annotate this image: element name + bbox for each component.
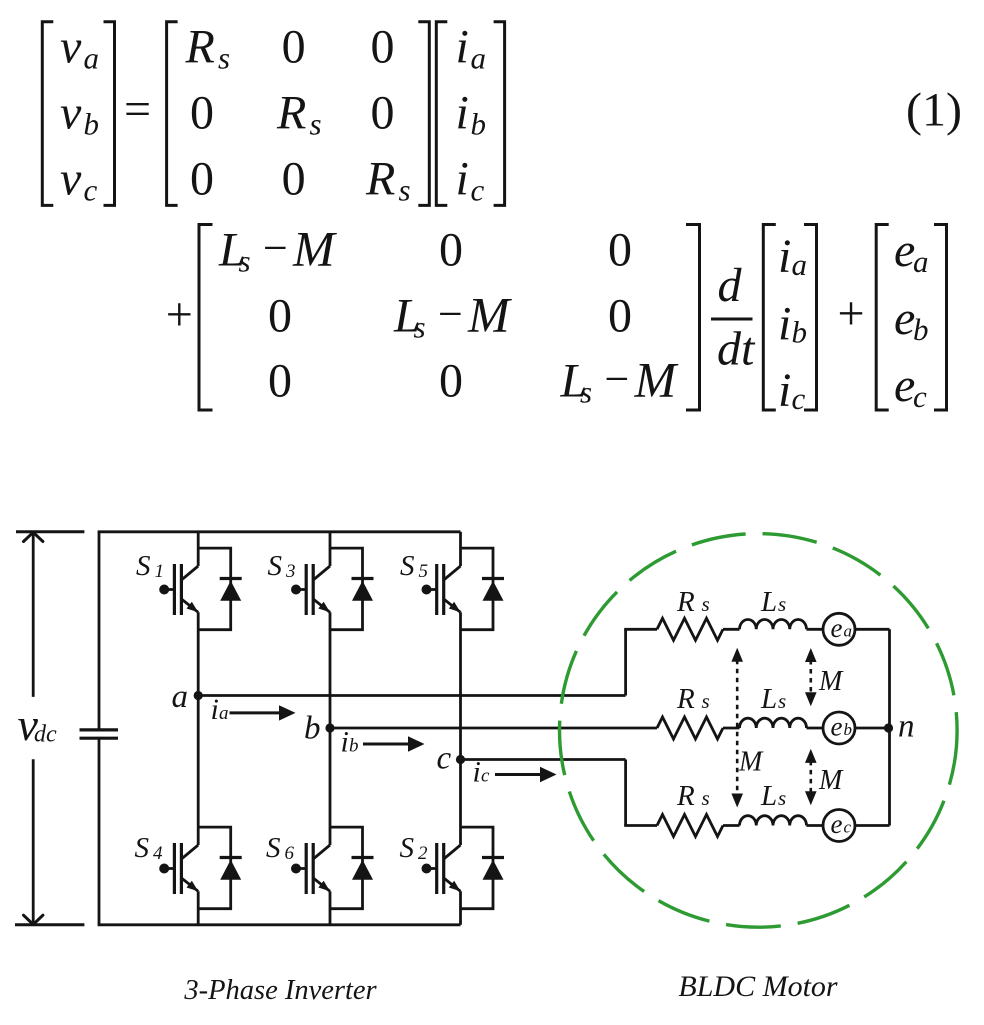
svg-text:e: e bbox=[831, 809, 843, 839]
svg-text:i: i bbox=[341, 726, 349, 759]
svg-text:i: i bbox=[456, 21, 469, 74]
svg-text:a: a bbox=[844, 621, 853, 640]
svg-text:S: S bbox=[400, 832, 415, 864]
svg-text:M: M bbox=[738, 747, 764, 778]
svg-text:b: b bbox=[349, 736, 359, 757]
svg-text:R: R bbox=[185, 21, 215, 74]
svg-text:M: M bbox=[818, 666, 844, 697]
svg-text:−: − bbox=[438, 290, 463, 339]
svg-text:c: c bbox=[481, 766, 490, 787]
svg-text:s: s bbox=[778, 786, 786, 810]
svg-text:a: a bbox=[471, 41, 487, 76]
svg-text:BLDC Motor: BLDC Motor bbox=[678, 970, 838, 1003]
svg-text:s: s bbox=[702, 592, 710, 616]
svg-text:i: i bbox=[456, 153, 469, 206]
svg-text:R: R bbox=[276, 87, 306, 140]
svg-text:a: a bbox=[219, 703, 229, 724]
svg-text:i: i bbox=[211, 693, 219, 726]
svg-text:R: R bbox=[676, 586, 695, 618]
svg-text:s: s bbox=[310, 107, 322, 142]
svg-text:0: 0 bbox=[268, 355, 292, 408]
svg-text:(1): (1) bbox=[906, 84, 962, 137]
svg-text:1: 1 bbox=[155, 561, 165, 582]
svg-text:i: i bbox=[778, 230, 791, 283]
svg-text:0: 0 bbox=[190, 87, 214, 140]
svg-text:R: R bbox=[676, 780, 695, 812]
svg-text:v: v bbox=[60, 87, 82, 140]
svg-text:M: M bbox=[634, 352, 679, 408]
svg-text:S: S bbox=[266, 832, 281, 864]
svg-text:s: s bbox=[414, 310, 426, 345]
svg-text:b: b bbox=[913, 312, 929, 347]
svg-text:S: S bbox=[136, 550, 151, 582]
svg-text:0: 0 bbox=[439, 355, 463, 408]
svg-text:s: s bbox=[580, 375, 592, 410]
svg-text:−: − bbox=[263, 224, 288, 273]
svg-text:a: a bbox=[84, 41, 100, 76]
svg-text:0: 0 bbox=[268, 290, 292, 343]
svg-text:c: c bbox=[471, 173, 485, 208]
svg-text:+: + bbox=[166, 288, 193, 341]
svg-text:3: 3 bbox=[285, 561, 296, 582]
svg-text:s: s bbox=[218, 41, 230, 76]
svg-text:6: 6 bbox=[285, 843, 295, 864]
svg-text:a: a bbox=[913, 244, 929, 279]
svg-text:M: M bbox=[818, 765, 844, 796]
svg-text:b: b bbox=[304, 711, 321, 747]
svg-text:s: s bbox=[239, 244, 251, 279]
svg-text:b: b bbox=[844, 720, 853, 739]
svg-text:i: i bbox=[778, 364, 791, 417]
svg-text:L: L bbox=[760, 683, 777, 715]
svg-text:c: c bbox=[437, 741, 452, 777]
svg-text:i: i bbox=[473, 756, 481, 789]
svg-text:e: e bbox=[831, 712, 843, 742]
svg-text:c: c bbox=[913, 379, 927, 414]
svg-text:L: L bbox=[760, 780, 777, 812]
svg-text:S: S bbox=[135, 832, 150, 864]
svg-text:3-Phase Inverter: 3-Phase Inverter bbox=[183, 975, 377, 1006]
svg-text:s: s bbox=[778, 689, 786, 713]
svg-text:n: n bbox=[898, 709, 915, 745]
svg-text:S: S bbox=[400, 550, 415, 582]
svg-text:0: 0 bbox=[608, 290, 632, 343]
svg-text:−: − bbox=[605, 355, 630, 404]
svg-text:b: b bbox=[84, 107, 100, 142]
svg-text:5: 5 bbox=[419, 561, 429, 582]
svg-text:S: S bbox=[268, 550, 283, 582]
svg-text:c: c bbox=[792, 381, 806, 416]
svg-text:L: L bbox=[760, 586, 777, 618]
svg-text:i: i bbox=[778, 298, 791, 351]
svg-text:b: b bbox=[471, 107, 487, 142]
svg-text:0: 0 bbox=[608, 224, 632, 277]
svg-text:0: 0 bbox=[439, 224, 463, 277]
svg-text:s: s bbox=[778, 592, 786, 616]
svg-text:b: b bbox=[792, 315, 808, 350]
svg-text:dt: dt bbox=[717, 323, 756, 376]
svg-text:+: + bbox=[837, 287, 864, 340]
svg-text:0: 0 bbox=[282, 153, 306, 206]
svg-text:s: s bbox=[399, 173, 411, 208]
svg-text:R: R bbox=[676, 683, 695, 715]
svg-text:c: c bbox=[84, 173, 98, 208]
svg-text:s: s bbox=[702, 689, 710, 713]
svg-text:0: 0 bbox=[371, 87, 395, 140]
svg-text:2: 2 bbox=[418, 843, 428, 864]
svg-text:dc: dc bbox=[34, 722, 57, 748]
svg-text:M: M bbox=[467, 287, 512, 343]
svg-text:a: a bbox=[172, 679, 189, 715]
svg-text:i: i bbox=[456, 87, 469, 140]
svg-text:=: = bbox=[124, 83, 151, 136]
svg-text:0: 0 bbox=[371, 21, 395, 74]
svg-text:s: s bbox=[702, 786, 710, 810]
svg-text:a: a bbox=[792, 247, 808, 282]
svg-text:d: d bbox=[718, 259, 743, 312]
svg-text:c: c bbox=[844, 818, 852, 837]
svg-text:e: e bbox=[831, 613, 843, 643]
svg-text:4: 4 bbox=[153, 843, 163, 864]
svg-text:v: v bbox=[60, 21, 82, 74]
svg-text:M: M bbox=[292, 221, 337, 277]
svg-text:v: v bbox=[60, 153, 82, 206]
svg-text:0: 0 bbox=[282, 21, 306, 74]
svg-text:0: 0 bbox=[190, 153, 214, 206]
svg-text:R: R bbox=[365, 153, 395, 206]
